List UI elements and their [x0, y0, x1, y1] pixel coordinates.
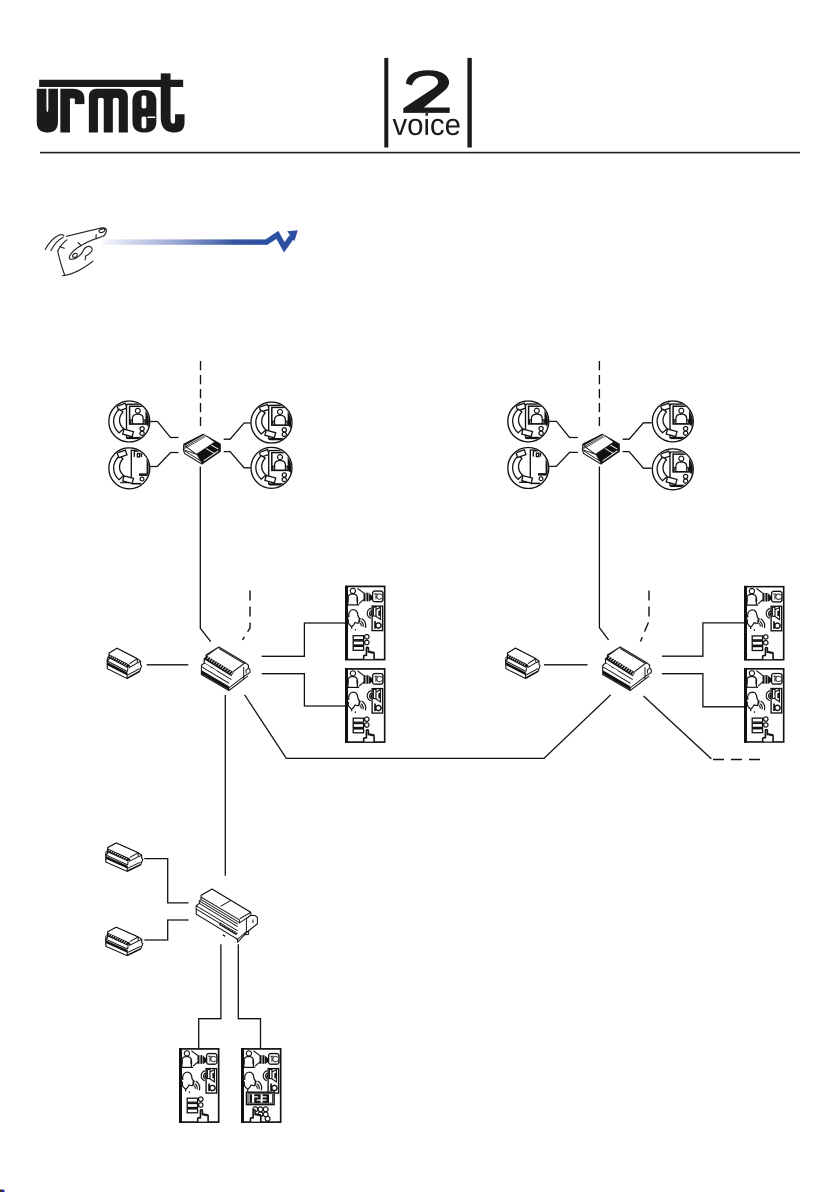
entrance panel EP4	[744, 668, 784, 743]
wire TL circle to module	[150, 422, 178, 438]
power supply PS1	[107, 648, 141, 678]
header rule	[40, 152, 800, 154]
floor distributor module right	[582, 434, 619, 464]
dashed bus end	[713, 759, 766, 761]
wire main unit to EP6	[238, 944, 260, 1048]
video door phone circle R-BR	[652, 449, 693, 490]
main switcher unit	[196, 889, 257, 942]
riser distributor module right	[603, 647, 652, 691]
wire PS2 to riser distributor	[544, 664, 588, 666]
entrance panel EP6 with keypad	[241, 1048, 281, 1123]
wire BL circle to module	[150, 453, 178, 467]
2voice logo	[384, 58, 472, 148]
dashed riser branch left	[243, 591, 251, 641]
wire to entrance panel EP2	[262, 674, 345, 706]
riser distributor module left	[201, 647, 250, 691]
wire PS1 to riser distributor	[147, 664, 189, 666]
audio door phone circle R-BL	[508, 448, 549, 489]
video door phone circle R-TL	[508, 401, 549, 442]
wire to entrance panel EP1	[262, 623, 345, 656]
video door phone circle L-TL	[109, 401, 150, 442]
riser line below right cluster	[599, 467, 608, 641]
video door phone circle L-TR	[251, 402, 292, 443]
bus wire right continuation	[644, 696, 712, 759]
pointing hand icon	[45, 228, 106, 276]
wire BL circle to module (right cluster)	[549, 452, 578, 466]
video door phone circle L-BR	[251, 447, 292, 488]
bus wire between risers	[245, 695, 611, 759]
wire PS3 to main unit	[144, 859, 188, 903]
entrance panel EP2	[345, 668, 385, 743]
scan artifact bottom left corner	[0, 1190, 4, 1192]
wire PS4 to main unit	[144, 920, 188, 940]
wire to entrance panel EP3	[662, 623, 744, 656]
dashed riser branch right	[641, 591, 650, 642]
wire TL circle to module (right cluster)	[549, 421, 578, 437]
riser to main unit	[224, 695, 226, 876]
power supply PS2	[506, 648, 540, 678]
power supply PS4	[106, 927, 143, 955]
entrance panel EP1	[345, 586, 385, 661]
riser line below left cluster	[200, 467, 211, 642]
video door phone circle R-TR	[652, 401, 693, 442]
wire module to BR circle (right cluster)	[623, 452, 652, 469]
audio door phone circle L-BL	[109, 448, 150, 489]
dashed riser above right cluster	[598, 361, 600, 426]
urmet logo	[37, 74, 184, 132]
wire module to TR circle	[224, 423, 251, 439]
power supply PS3	[106, 843, 143, 871]
gradient arrow bar	[103, 239, 268, 244]
entrance panel EP5	[179, 1048, 219, 1123]
entrance panel EP3	[744, 586, 784, 661]
arrow head	[287, 230, 298, 241]
wire module to TR circle (right cluster)	[623, 423, 652, 439]
arrow zigzag	[267, 235, 292, 247]
wire module to BR circle	[224, 452, 251, 468]
wire to entrance panel EP4	[662, 674, 744, 707]
dashed riser above left cluster	[200, 361, 202, 426]
floor distributor module left	[183, 434, 220, 464]
wire main unit to EP5	[199, 944, 221, 1048]
